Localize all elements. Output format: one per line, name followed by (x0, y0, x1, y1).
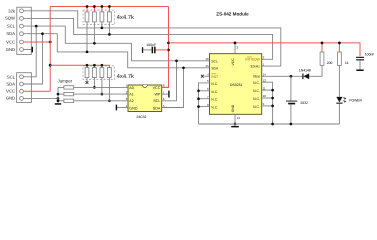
svg-text:32kHz: 32kHz (250, 64, 260, 68)
ground bar at WP (168, 91, 169, 98)
resistor R1 200 (charge) (320, 42, 332, 66)
node jumper common A2 (57, 99, 60, 102)
svg-text:11: 11 (263, 86, 266, 90)
svg-text:4x4.7k: 4x4.7k (117, 73, 134, 80)
capacitor C1 100nF (left, at DS3231 VCC) (142, 43, 169, 53)
DS3231 GND pin stub (pin13) (234, 114, 236, 124)
svg-text:A1: A1 (129, 93, 134, 97)
overline INT (247, 56, 252, 58)
resistor R2 1k (LED) (338, 42, 349, 66)
svg-text:VCC: VCC (6, 39, 15, 44)
svg-text:1N4148: 1N4148 (299, 68, 311, 72)
node SCL junction (35, 25, 38, 28)
ground symbol at DS3231 GND (234, 123, 237, 126)
node VCC cap junction (167, 49, 170, 52)
jumper JP3 (A2) (58, 99, 122, 102)
wire SQW net (J1.SQW to DS3231 pin3) (23, 18, 272, 59)
node SDA junction (41, 32, 44, 35)
ground rail bottom (199, 123, 340, 125)
wire 32K net (J1.32K to DS3231 pin1) (23, 11, 280, 66)
svg-text:GND: GND (6, 47, 15, 52)
node NC bus right on rail (271, 123, 274, 126)
svg-text:A0: A0 (129, 86, 134, 90)
wire 24C32 SCL riser (162, 61, 177, 101)
svg-text:WP: WP (154, 93, 160, 97)
DS3231 RST no-connect X (201, 75, 210, 78)
svg-text:A2: A2 (129, 99, 134, 103)
node VCC branch to pack2 (49, 64, 52, 67)
wire VCC red mid rail to right section (169, 43, 361, 56)
svg-text:N.C.: N.C. (211, 106, 218, 110)
svg-text:SDA: SDA (6, 81, 15, 86)
svg-text:SCL: SCL (7, 23, 16, 28)
svg-text:GND: GND (129, 107, 138, 111)
J1 pin labels (5, 8, 16, 52)
svg-text:N.C.: N.C. (253, 89, 260, 93)
node battery junction (290, 75, 293, 78)
wire VCC red vertical x=168.5 down to 24C32 VCC (162, 7, 169, 88)
DS3231 pin labels right (245, 58, 260, 109)
24C32 pin labels (129, 86, 138, 111)
connector J1 (top-left 6-pin header) (17, 7, 32, 54)
DS3231 right NC bus (262, 82, 273, 124)
IC U1 DS3231 RTC (210, 54, 262, 115)
24C32 left pin stubs (122, 86, 128, 88)
wire jumper common vertical (57, 87, 59, 103)
svg-text:100nF: 100nF (365, 53, 375, 57)
resistor RP1-R1 (85, 5, 89, 53)
svg-text:GND: GND (6, 96, 15, 101)
connector J2 (bottom-left 4-pin header) (17, 73, 32, 103)
node VCC junction at x50 (49, 41, 52, 44)
wire SCL riser J2 to SCL net (23, 26, 36, 77)
DS3231 pin labels left (211, 60, 219, 110)
wire VCC red top rail (50, 6, 168, 8)
resistor RP1-R3 (100, 5, 104, 29)
svg-text:Vbat: Vbat (253, 75, 260, 79)
jumper JP1 (A0) (58, 86, 122, 89)
svg-text:N.C.: N.C. (253, 105, 260, 109)
resistor pack RP1 4x4.7k dashed box (83, 10, 115, 24)
svg-text:VCC: VCC (153, 86, 161, 90)
svg-text:POWER: POWER (349, 98, 362, 102)
overline RST (211, 73, 216, 75)
DS3231 left NC bus (199, 83, 210, 124)
24C32 right pin stubs (162, 86, 169, 88)
svg-text:4x4.7k: 4x4.7k (117, 14, 134, 21)
svg-text:N.C.: N.C. (253, 97, 260, 101)
svg-text:N.C.: N.C. (211, 82, 218, 86)
svg-text:12: 12 (263, 78, 267, 82)
svg-text:DS3231: DS3231 (230, 83, 242, 87)
resistor RP2-R4 (A2 pullup) (108, 68, 112, 103)
LED D2 POWER (336, 66, 362, 125)
svg-text:SDA: SDA (153, 107, 161, 111)
svg-text:INT/SQW: INT/SQW (245, 58, 260, 62)
svg-text:15: 15 (205, 64, 209, 68)
wire GND J1 stub (23, 49, 31, 51)
svg-text:RST: RST (211, 75, 218, 79)
24C32 GND pin stub + ground bar (117, 107, 128, 109)
wire 24C32 SDA riser (162, 68, 184, 108)
svg-text:VCC: VCC (6, 89, 15, 94)
svg-text:SCL: SCL (153, 99, 160, 103)
svg-text:SDA: SDA (6, 31, 15, 36)
wire VCC red J2.VCC row (23, 90, 50, 92)
svg-text:1k: 1k (345, 61, 349, 65)
svg-text:Jumper: Jumper (58, 78, 73, 83)
jumper JP2 (A1) (58, 92, 122, 95)
resistor RP2-R1 (unused, X no-connect) (85, 64, 89, 84)
battery BT1 2032 (286, 76, 308, 125)
svg-text:10: 10 (263, 94, 267, 98)
capacitor C2 100nF (right) (356, 53, 374, 71)
resistor RP2-R2 (A0 pullup) (93, 64, 97, 89)
DS3231 pin numbers (205, 57, 209, 107)
DS3231 VCC pin stub (pin2) (234, 43, 236, 54)
J2 pin labels (6, 74, 16, 100)
svg-text:SCL: SCL (7, 74, 16, 79)
wire VCC red main vertical x=50.2 (49, 7, 51, 92)
wire SDA riser J2 to SDA net (23, 34, 42, 84)
node SDA riser junction (182, 66, 185, 69)
svg-text:N.C.: N.C. (253, 81, 260, 85)
wire VCC red: J1.VCC to main vertical (23, 41, 50, 43)
wire VBAT net: DS3231 pin14 to diode/battery (262, 75, 303, 77)
svg-text:SDA: SDA (211, 67, 219, 71)
svg-text:VCC: VCC (231, 58, 235, 66)
resistor RP1-R2 (93, 5, 97, 45)
svg-text:N.C.: N.C. (211, 98, 218, 102)
svg-text:16: 16 (205, 57, 209, 61)
wire GND J2 to jumper common (23, 97, 58, 99)
node jumper common A1 (57, 93, 60, 96)
node GND-jumper junction (57, 97, 60, 100)
svg-text:ZS-042 Module: ZS-042 Module (216, 11, 249, 16)
wire SDA net (J1.SDA to DS3231 pin15) (23, 34, 209, 68)
diode D1 1N4148 (299, 66, 322, 80)
resistor pack RP2 4x4.7k dashed box (83, 66, 115, 80)
svg-text:100nF: 100nF (146, 43, 156, 47)
ground bar at J1.GND (32, 47, 33, 53)
svg-text:2032: 2032 (300, 101, 308, 105)
node VCC mid-rail junction (167, 42, 170, 45)
wire SCL net (J1.SCL to DS3231 pin16) (23, 26, 209, 61)
svg-text:GND: GND (231, 104, 235, 112)
svg-text:200: 200 (327, 61, 333, 65)
resistor RP1-R4 (108, 5, 112, 36)
svg-text:SCL: SCL (211, 60, 218, 64)
svg-text:32k: 32k (8, 8, 16, 13)
svg-text:24C32: 24C32 (136, 115, 146, 119)
svg-text:SQW: SQW (5, 16, 15, 21)
24C32 pin numbers (126, 84, 128, 108)
wire VCC red branch to pack2 tops (50, 65, 109, 67)
node SCL riser junction (175, 59, 178, 62)
svg-text:N.C.: N.C. (211, 90, 218, 94)
IC U2 24C32 EEPROM (128, 85, 162, 112)
svg-text:13: 13 (237, 116, 241, 120)
ground bar at jumper common (55, 103, 61, 105)
resistor RP2-R3 (A1 pullup) (100, 64, 104, 96)
